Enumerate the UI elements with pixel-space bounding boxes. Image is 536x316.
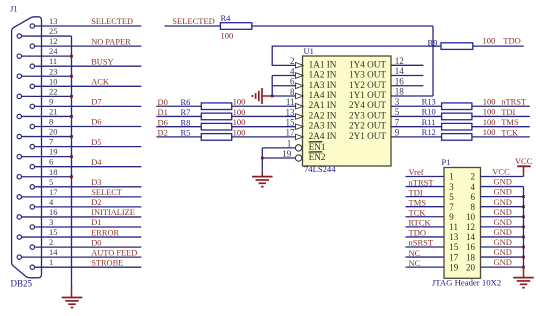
svg-text:nTRST: nTRST bbox=[409, 177, 435, 187]
svg-text:D5: D5 bbox=[91, 138, 101, 147]
svg-text:ACK: ACK bbox=[91, 78, 109, 87]
svg-text:23: 23 bbox=[49, 66, 58, 76]
J1 pin 21 bbox=[17, 114, 21, 118]
junction GND bus pin 12 bbox=[522, 225, 525, 228]
resistor R5 bbox=[201, 134, 231, 141]
junction on ground bus at pin 21 bbox=[70, 115, 73, 118]
svg-text:19: 19 bbox=[49, 147, 58, 157]
junction on ground bus at pin 20 bbox=[70, 135, 73, 138]
svg-text:EN2: EN2 bbox=[309, 152, 326, 162]
svg-text:D2: D2 bbox=[91, 198, 101, 207]
wire J1 pin 19 to ground bus bbox=[22, 156, 72, 158]
svg-text:SELECTED: SELECTED bbox=[172, 16, 215, 26]
J1 pin 9 bbox=[30, 104, 34, 108]
wire P1 pin 19 net NC bbox=[406, 266, 445, 268]
svg-text:8: 8 bbox=[49, 117, 53, 127]
svg-text:2Y1 OUT: 2Y1 OUT bbox=[349, 131, 386, 141]
wire P1 pin 4 net GND bbox=[481, 186, 524, 188]
wire J1 pin 22 to ground bus bbox=[22, 95, 72, 97]
resistor R11 bbox=[442, 123, 472, 130]
J1 pin 25 bbox=[17, 34, 21, 38]
svg-text:18: 18 bbox=[466, 252, 476, 262]
junction on ground bus at pin 24 bbox=[70, 55, 73, 58]
junction GND bus pin 14 bbox=[522, 236, 525, 239]
svg-text:VCC: VCC bbox=[492, 167, 510, 177]
svg-text:16: 16 bbox=[49, 207, 58, 217]
svg-text:11: 11 bbox=[49, 56, 57, 66]
wire P1 pin 18 net GND bbox=[481, 256, 524, 258]
wire P1 pin 16 net GND bbox=[481, 246, 524, 248]
wire J1 pin 4 net D2 bbox=[35, 206, 142, 208]
wire P1 pin 14 net GND bbox=[481, 236, 524, 238]
svg-text:R6: R6 bbox=[181, 97, 191, 107]
svg-text:1A1 IN: 1A1 IN bbox=[309, 59, 337, 69]
connector J1 body (DB25 shell) bbox=[12, 17, 42, 278]
svg-text:GND: GND bbox=[494, 227, 512, 237]
svg-text:GND: GND bbox=[494, 177, 512, 187]
wire J1 pin 2 net D0 bbox=[35, 246, 142, 248]
svg-text:TDO: TDO bbox=[409, 228, 426, 238]
resistor R6 bbox=[201, 103, 231, 110]
J1 pin 10 bbox=[30, 84, 34, 88]
resistor R7 bbox=[201, 113, 231, 120]
svg-text:GND: GND bbox=[494, 187, 512, 197]
wire U1 pin 7 net TMS bbox=[391, 126, 530, 128]
svg-text:19: 19 bbox=[449, 262, 459, 272]
svg-text:P1: P1 bbox=[442, 157, 451, 167]
svg-text:R4: R4 bbox=[221, 13, 232, 23]
wire D1 to U1 bbox=[156, 115, 296, 117]
svg-text:100: 100 bbox=[233, 97, 246, 107]
svg-text:4: 4 bbox=[471, 182, 476, 192]
wire GND bus right of P1 bbox=[523, 187, 525, 268]
svg-text:100: 100 bbox=[233, 127, 246, 137]
J1 pin 5 bbox=[30, 185, 34, 189]
junction GND bus pin 20 bbox=[522, 266, 525, 269]
wire P1 pin 10 net GND bbox=[481, 216, 524, 218]
U1 enable pin 19 bubble bbox=[295, 155, 301, 161]
svg-text:GND: GND bbox=[494, 217, 512, 227]
resistor R4 bbox=[220, 23, 251, 30]
svg-text:TCK: TCK bbox=[501, 127, 519, 137]
svg-text:19: 19 bbox=[282, 149, 292, 159]
svg-text:13: 13 bbox=[49, 16, 58, 26]
svg-text:8: 8 bbox=[290, 87, 295, 97]
wire J1 pin 16 net INITIALIZE bbox=[22, 216, 142, 218]
svg-text:2A4 IN: 2A4 IN bbox=[309, 131, 337, 141]
wire U1 pin 14 stub bbox=[391, 75, 423, 77]
svg-text:GND: GND bbox=[494, 207, 512, 217]
wire U1 pin 3 net nTRST bbox=[391, 105, 530, 107]
svg-text:U1: U1 bbox=[304, 46, 314, 56]
svg-text:6: 6 bbox=[49, 157, 53, 167]
junction EN2 bbox=[261, 157, 264, 160]
svg-text:2A3 IN: 2A3 IN bbox=[309, 121, 337, 131]
wire J1 pin 15 net ERROR bbox=[22, 236, 142, 238]
svg-text:6: 6 bbox=[471, 192, 476, 202]
wire J1 pin 10 net ACK bbox=[35, 85, 142, 87]
junction GND bus pin 18 bbox=[522, 256, 525, 259]
svg-text:TMS: TMS bbox=[409, 197, 427, 207]
svg-text:100: 100 bbox=[483, 35, 496, 45]
svg-text:NC: NC bbox=[409, 258, 421, 268]
svg-text:R11: R11 bbox=[422, 117, 436, 127]
svg-text:16: 16 bbox=[395, 76, 405, 86]
svg-text:GND: GND bbox=[494, 237, 512, 247]
svg-text:TDI: TDI bbox=[501, 107, 515, 117]
svg-text:17: 17 bbox=[286, 128, 296, 138]
svg-text:2Y2 OUT: 2Y2 OUT bbox=[349, 121, 386, 131]
wire J1 pin 20 to ground bus bbox=[22, 136, 72, 138]
svg-text:5: 5 bbox=[449, 192, 454, 202]
svg-text:2: 2 bbox=[49, 237, 53, 247]
wire J1 pin 7 net D5 bbox=[35, 146, 142, 148]
wire U1 pin 12 stub bbox=[391, 64, 423, 66]
svg-text:2Y3 OUT: 2Y3 OUT bbox=[349, 110, 386, 120]
svg-text:RTCK: RTCK bbox=[409, 218, 432, 228]
svg-text:7: 7 bbox=[49, 137, 53, 147]
svg-text:D1: D1 bbox=[91, 218, 101, 227]
svg-text:17: 17 bbox=[49, 187, 58, 197]
resistor R9 bbox=[441, 43, 473, 50]
J1 pin 7 bbox=[30, 144, 34, 148]
wire D2 to U1 bbox=[156, 136, 296, 138]
wire P1 pin 2 net VCC bbox=[481, 176, 524, 178]
J1 pin 15 bbox=[17, 235, 21, 239]
wire J1 pin 14 net AUTO FEED bbox=[22, 256, 142, 258]
ground symbol below DB25 bbox=[62, 297, 83, 299]
wire U1 pin 1 (EN1) bbox=[262, 147, 295, 149]
svg-text:17: 17 bbox=[449, 252, 459, 262]
svg-text:100: 100 bbox=[483, 127, 496, 137]
ground symbol below P1 bbox=[513, 277, 534, 279]
svg-text:7: 7 bbox=[395, 117, 400, 127]
svg-text:10: 10 bbox=[466, 212, 476, 222]
svg-text:R10: R10 bbox=[422, 107, 436, 117]
U1 enable pin 1 bubble bbox=[295, 145, 301, 151]
junction ground rail pin 8 bbox=[271, 95, 274, 98]
J1 pin 23 bbox=[17, 74, 21, 78]
wire U1 pin 5 net TDI bbox=[391, 115, 530, 117]
svg-text:INITIALIZE: INITIALIZE bbox=[91, 208, 135, 217]
svg-text:3: 3 bbox=[395, 97, 400, 107]
U1 input pin 17 arrow bbox=[296, 134, 304, 140]
junction GND bus pin 6 bbox=[522, 195, 525, 198]
wire ground rail vertical bbox=[271, 76, 273, 96]
svg-text:12: 12 bbox=[395, 56, 404, 66]
wire EN ground vertical bbox=[261, 148, 263, 173]
junction GND bus pin 8 bbox=[522, 205, 525, 208]
svg-text:D1: D1 bbox=[158, 107, 168, 117]
wire P1 pin 20 net GND bbox=[481, 266, 524, 268]
svg-text:NO PAPER: NO PAPER bbox=[91, 37, 131, 46]
J1 pin 18 bbox=[17, 175, 21, 179]
wire J1 pin 21 to ground bus bbox=[22, 115, 72, 117]
svg-text:9: 9 bbox=[49, 96, 53, 106]
wire J1 pin 11 net BUSY bbox=[35, 65, 142, 67]
wire feedback loop to U1 pin 2 bbox=[272, 46, 433, 65]
J1 pin 14 bbox=[17, 255, 21, 259]
wire P1 pin 3 net nTRST bbox=[406, 186, 445, 188]
wire R9 to TDO bbox=[473, 45, 524, 47]
svg-text:2Y4 OUT: 2Y4 OUT bbox=[349, 100, 386, 110]
svg-text:2: 2 bbox=[290, 56, 295, 66]
svg-text:5: 5 bbox=[49, 177, 53, 187]
wire J1 pin 3 net D1 bbox=[35, 226, 142, 228]
wire U1 pin 18 to node A bbox=[391, 95, 433, 97]
wire P1 pin 7 net TMS bbox=[406, 206, 445, 208]
svg-text:15: 15 bbox=[49, 227, 58, 237]
svg-text:9: 9 bbox=[395, 128, 400, 138]
power symbol VCC stem bbox=[523, 166, 525, 176]
svg-text:20: 20 bbox=[49, 127, 58, 137]
svg-text:15: 15 bbox=[449, 242, 459, 252]
svg-text:TMS: TMS bbox=[501, 117, 519, 127]
svg-text:100: 100 bbox=[483, 117, 496, 127]
junction GND bus pin 16 bbox=[522, 246, 525, 249]
svg-text:2A1 IN: 2A1 IN bbox=[309, 100, 337, 110]
resistor R8 bbox=[201, 123, 231, 130]
ground stem below P1 bus bbox=[523, 267, 525, 277]
buffer U1 body (74LS244) bbox=[303, 56, 392, 166]
svg-text:D6: D6 bbox=[158, 117, 168, 127]
U1 input pin 13 arrow bbox=[296, 114, 304, 120]
ground stem below DB25 bbox=[71, 287, 73, 297]
svg-text:24: 24 bbox=[49, 46, 58, 56]
resistor R12 bbox=[442, 134, 472, 141]
svg-text:Vref: Vref bbox=[409, 167, 424, 177]
svg-text:74LS244: 74LS244 bbox=[304, 164, 336, 174]
junction GND bus pin 10 bbox=[522, 215, 525, 218]
wire D0 to U1 bbox=[156, 105, 296, 107]
svg-text:18: 18 bbox=[395, 87, 405, 97]
wire J1 pin 5 net D3 bbox=[35, 186, 142, 188]
svg-text:NC: NC bbox=[409, 248, 421, 258]
svg-text:9: 9 bbox=[449, 212, 454, 222]
svg-text:D3: D3 bbox=[91, 178, 101, 187]
svg-text:3: 3 bbox=[449, 182, 454, 192]
svg-text:15: 15 bbox=[286, 117, 296, 127]
wire R4 to node A bbox=[252, 25, 433, 27]
U1 input pin 6 arrow bbox=[296, 83, 304, 89]
svg-text:R13: R13 bbox=[422, 96, 436, 106]
svg-text:1Y1 OUT: 1Y1 OUT bbox=[349, 90, 386, 100]
svg-text:1Y2 OUT: 1Y2 OUT bbox=[349, 80, 386, 90]
J1 pin 22 bbox=[17, 94, 21, 98]
wire D6 to U1 bbox=[156, 126, 296, 128]
svg-text:GND: GND bbox=[494, 247, 512, 257]
J1 pin 24 bbox=[17, 54, 21, 58]
svg-text:6: 6 bbox=[290, 77, 295, 87]
svg-text:R7: R7 bbox=[181, 107, 191, 117]
svg-text:1: 1 bbox=[287, 139, 292, 149]
ground symbol left of U1 bbox=[261, 88, 263, 104]
svg-text:14: 14 bbox=[49, 247, 58, 257]
svg-text:4: 4 bbox=[290, 66, 295, 76]
wire P1 pin 9 net TCK bbox=[406, 216, 445, 218]
svg-text:100: 100 bbox=[483, 96, 496, 106]
wire P1 pin 11 net RTCK bbox=[406, 226, 445, 228]
wire P1 pin 8 net GND bbox=[481, 206, 524, 208]
svg-text:SELECTED: SELECTED bbox=[91, 17, 133, 26]
wire P1 pin 15 net nSRST bbox=[406, 246, 445, 248]
resistor R13 bbox=[442, 103, 472, 110]
wire P1 pin 6 net GND bbox=[481, 196, 524, 198]
svg-text:D7: D7 bbox=[91, 98, 101, 107]
svg-text:STROBE: STROBE bbox=[91, 258, 123, 267]
connector P1 body (JTAG header) bbox=[444, 168, 481, 279]
svg-text:D0: D0 bbox=[91, 238, 101, 247]
svg-text:1Y3 OUT: 1Y3 OUT bbox=[349, 70, 386, 80]
J1 pin 12 bbox=[30, 44, 34, 48]
svg-text:14: 14 bbox=[395, 66, 405, 76]
svg-text:R12: R12 bbox=[422, 127, 436, 137]
wire J1 pin 1 net STROBE bbox=[35, 266, 142, 268]
J1 pin 1 bbox=[30, 265, 34, 269]
J1 pin 8 bbox=[30, 124, 34, 128]
svg-text:1A4 IN: 1A4 IN bbox=[309, 90, 337, 100]
wire J1 pin 12 net NO PAPER bbox=[35, 45, 142, 47]
junction on ground bus at pin 22 bbox=[70, 95, 73, 98]
U1 input pin 4 arrow bbox=[296, 73, 304, 79]
svg-text:20: 20 bbox=[466, 262, 476, 272]
J1 pin 16 bbox=[17, 215, 21, 219]
svg-text:SELECT: SELECT bbox=[91, 188, 122, 197]
wire U1 pin 16 stub bbox=[391, 85, 423, 87]
wire U1 pin 19 (EN2) bbox=[262, 157, 295, 159]
svg-text:13: 13 bbox=[286, 107, 296, 117]
J1 pin 4 bbox=[30, 205, 34, 209]
svg-text:14: 14 bbox=[466, 232, 476, 242]
svg-text:ERROR: ERROR bbox=[91, 228, 119, 237]
resistor R10 bbox=[442, 113, 472, 120]
junction on ground bus at pin 19 bbox=[70, 155, 73, 158]
svg-text:13: 13 bbox=[449, 232, 459, 242]
svg-text:TDO: TDO bbox=[503, 35, 520, 45]
ground stem below EN wires bbox=[261, 172, 263, 176]
svg-text:VCC: VCC bbox=[515, 156, 533, 166]
J1 pin 2 bbox=[30, 245, 34, 249]
wire node A vertical bbox=[432, 26, 434, 96]
svg-text:1: 1 bbox=[449, 172, 454, 182]
svg-text:12: 12 bbox=[49, 36, 58, 46]
svg-text:2: 2 bbox=[471, 172, 476, 182]
svg-text:7: 7 bbox=[449, 202, 454, 212]
U1 input pin 15 arrow bbox=[296, 124, 304, 130]
svg-text:100: 100 bbox=[233, 117, 246, 127]
ground stem (left-pointing) bbox=[262, 95, 272, 97]
wire J1 pin 17 net SELECT bbox=[22, 196, 142, 198]
J1 pin 13 bbox=[30, 24, 34, 28]
svg-text:3: 3 bbox=[49, 217, 53, 227]
svg-text:GND: GND bbox=[494, 257, 512, 267]
svg-text:R8: R8 bbox=[181, 117, 191, 127]
svg-text:nTRST: nTRST bbox=[501, 97, 527, 107]
svg-text:D2: D2 bbox=[158, 128, 168, 138]
svg-text:D0: D0 bbox=[158, 97, 168, 107]
svg-text:EN1: EN1 bbox=[309, 142, 326, 152]
svg-text:22: 22 bbox=[49, 86, 58, 96]
svg-text:100: 100 bbox=[233, 107, 246, 117]
svg-text:21: 21 bbox=[49, 106, 58, 116]
junction on ground bus at pin 18 bbox=[70, 175, 73, 178]
J1 pin 19 bbox=[17, 154, 21, 158]
wire J1 pin 8 net D6 bbox=[35, 126, 142, 128]
svg-text:100: 100 bbox=[483, 107, 496, 117]
wire DB25 ground bus bbox=[71, 36, 73, 288]
U1 input pin 2 arrow bbox=[296, 63, 304, 69]
wire J1 pin 9 net D7 bbox=[35, 105, 142, 107]
svg-text:5: 5 bbox=[395, 107, 400, 117]
wire J1 pin 18 to ground bus bbox=[22, 176, 72, 178]
power symbol VCC bar bbox=[517, 165, 531, 167]
wire P1 pin 17 net NC bbox=[406, 256, 445, 258]
wire P1 pin 12 net GND bbox=[481, 226, 524, 228]
svg-text:8: 8 bbox=[471, 202, 476, 212]
svg-text:11: 11 bbox=[286, 97, 295, 107]
svg-text:DB25: DB25 bbox=[11, 279, 33, 289]
svg-text:D4: D4 bbox=[91, 158, 102, 167]
J1 pin 11 bbox=[30, 64, 34, 68]
J1 pin 3 bbox=[30, 225, 34, 229]
svg-text:BUSY: BUSY bbox=[91, 57, 113, 66]
wire P1 pin 1 net Vref bbox=[406, 176, 445, 178]
svg-text:25: 25 bbox=[49, 26, 58, 36]
svg-text:1Y4 OUT: 1Y4 OUT bbox=[349, 59, 386, 69]
svg-text:TCK: TCK bbox=[409, 207, 427, 217]
wire J1 pin 6 net D4 bbox=[35, 166, 142, 168]
svg-text:2A2 IN: 2A2 IN bbox=[309, 110, 337, 120]
wire J1 pin 24 to ground bus bbox=[22, 55, 72, 57]
svg-text:D6: D6 bbox=[91, 118, 101, 127]
J1 pin 17 bbox=[17, 195, 21, 199]
wire J1 pin 23 to ground bus bbox=[22, 75, 72, 77]
wire U1 pin 4 to ground rail bbox=[272, 75, 296, 77]
svg-text:1A3 IN: 1A3 IN bbox=[309, 80, 337, 90]
svg-text:GND: GND bbox=[494, 197, 512, 207]
svg-text:J1: J1 bbox=[10, 4, 18, 14]
svg-text:1: 1 bbox=[49, 257, 53, 267]
wire U1 pin 8 to ground rail bbox=[272, 95, 296, 97]
wire P1 pin 13 net TDO bbox=[406, 236, 445, 238]
svg-text:11: 11 bbox=[449, 222, 458, 232]
svg-text:10: 10 bbox=[49, 76, 58, 86]
wire J1 pin 13 net SELECTED bbox=[35, 25, 142, 27]
svg-text:1A2 IN: 1A2 IN bbox=[309, 70, 337, 80]
wire J1 pin 25 to ground bus bbox=[22, 35, 72, 37]
ground symbol below EN wires bbox=[252, 176, 272, 178]
J1 pin 20 bbox=[17, 134, 21, 138]
svg-text:12: 12 bbox=[466, 222, 475, 232]
J1 pin 6 bbox=[30, 165, 34, 169]
svg-text:16: 16 bbox=[466, 242, 476, 252]
wire U1 pin 9 net TCK bbox=[391, 136, 530, 138]
svg-text:18: 18 bbox=[49, 167, 58, 177]
wire SELECTED to R4 bbox=[165, 25, 221, 27]
svg-text:TDI: TDI bbox=[409, 187, 423, 197]
svg-text:AUTO FEED: AUTO FEED bbox=[91, 248, 137, 257]
U1 input pin 8 arrow bbox=[296, 93, 304, 99]
wire U1 pin 6 to ground rail bbox=[272, 85, 296, 87]
svg-text:100: 100 bbox=[221, 30, 234, 40]
svg-text:R5: R5 bbox=[181, 128, 191, 138]
junction on ground bus at pin 23 bbox=[70, 75, 73, 78]
U1 input pin 11 arrow bbox=[296, 103, 304, 109]
wire node A to R9 bbox=[433, 45, 441, 47]
svg-text:JTAG Header 10X2: JTAG Header 10X2 bbox=[432, 277, 501, 287]
wire P1 pin 5 net TDI bbox=[406, 196, 445, 198]
svg-text:nSRST: nSRST bbox=[409, 238, 434, 248]
